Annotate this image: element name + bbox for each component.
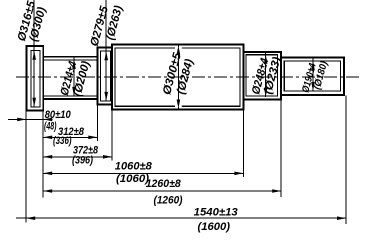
svg-text:(1260): (1260)	[154, 194, 183, 206]
svg-text:1540±13: 1540±13	[194, 206, 238, 218]
arrow 1260 right	[272, 189, 281, 193]
shaft 214 outer top line	[43, 56, 97, 58]
arrow 80 right (outside pointing left)	[43, 118, 52, 122]
dim line 1060	[43, 172, 243, 174]
gap in big section inner bottom line at dim line	[175, 105, 182, 107]
shaft 214 outer bottom line	[43, 98, 97, 100]
svg-text:1260±8: 1260±8	[146, 178, 182, 190]
extension line collar left	[96, 105, 98, 141]
extension line flange left	[25, 110, 27, 222]
arrow 312 right	[88, 136, 97, 140]
shaft 214 inner bottom line	[43, 95, 97, 97]
arrow 1260 left	[43, 189, 52, 193]
svg-text:(1600): (1600)	[198, 221, 231, 233]
dim line dia279	[105, 0, 107, 101]
flange section inner contour	[31, 51, 40, 107]
extension line right end	[345, 96, 347, 225]
arrow dia316 bottom	[32, 98, 36, 107]
dim line dia300	[177, 45, 179, 108]
svg-text:(48): (48)	[44, 121, 57, 133]
arrow 1540 right	[337, 216, 346, 220]
collar 279 outer contour	[97, 47, 112, 104]
arrow dia279 bottom	[104, 92, 108, 101]
extension line 248-190 step	[280, 100, 282, 197]
big section 300 outer contour	[112, 45, 243, 110]
dim line 80	[8, 118, 53, 120]
dim line dia190	[312, 58, 314, 91]
gap in big section inner top line at dim line	[175, 47, 182, 49]
svg-text:80±10: 80±10	[45, 109, 72, 121]
section 248 inner contour	[246, 55, 278, 96]
arrow 1540 left	[26, 216, 35, 220]
dim line 372	[43, 156, 112, 158]
dim line dia214	[73, 57, 75, 96]
arrow dia190 top	[311, 61, 315, 70]
arrow dia214 bottom	[72, 87, 76, 96]
arrow 372 left	[43, 155, 52, 159]
arrow dia316 top	[32, 51, 36, 60]
arrow 312 left	[43, 136, 52, 140]
arrow dia248 top	[264, 55, 268, 64]
svg-text:1060±8: 1060±8	[115, 161, 153, 173]
arrow 1060 left	[43, 172, 52, 176]
arrow 1060 right	[234, 172, 243, 176]
arrow dia300 top	[177, 46, 181, 55]
extension line collar right	[111, 105, 113, 161]
svg-text:(336): (336)	[53, 135, 72, 147]
dim line dia248	[265, 52, 267, 97]
arrow dia214 top	[72, 60, 76, 69]
extension line big right	[242, 110, 244, 177]
svg-text:(396): (396)	[72, 155, 93, 167]
svg-text:(1060): (1060)	[116, 173, 149, 185]
extension line flange right	[42, 110, 44, 197]
shaft 214 inner top line	[43, 59, 97, 61]
flange section outer contour	[27, 46, 44, 110]
big section 300 inner contour	[115, 48, 240, 106]
collar 279 inner contour	[101, 51, 111, 101]
dim line 1260	[43, 190, 281, 192]
centerline	[16, 76, 360, 78]
section 248 outer contour	[243, 52, 281, 100]
arrow dia190 bottom	[311, 82, 315, 91]
arrow dia300 bottom	[177, 100, 181, 109]
dim line dia316	[33, 0, 35, 107]
arrow 372 right	[103, 155, 112, 159]
arrow dia248 bottom	[264, 88, 268, 97]
section 190 outer contour	[281, 58, 344, 95]
dim line 1540	[16, 217, 346, 219]
section 190 inner contour	[284, 61, 340, 91]
dim line 312	[43, 136, 97, 138]
arrow 80 left (outside pointing right)	[17, 118, 26, 122]
arrow dia279 top	[104, 51, 108, 60]
